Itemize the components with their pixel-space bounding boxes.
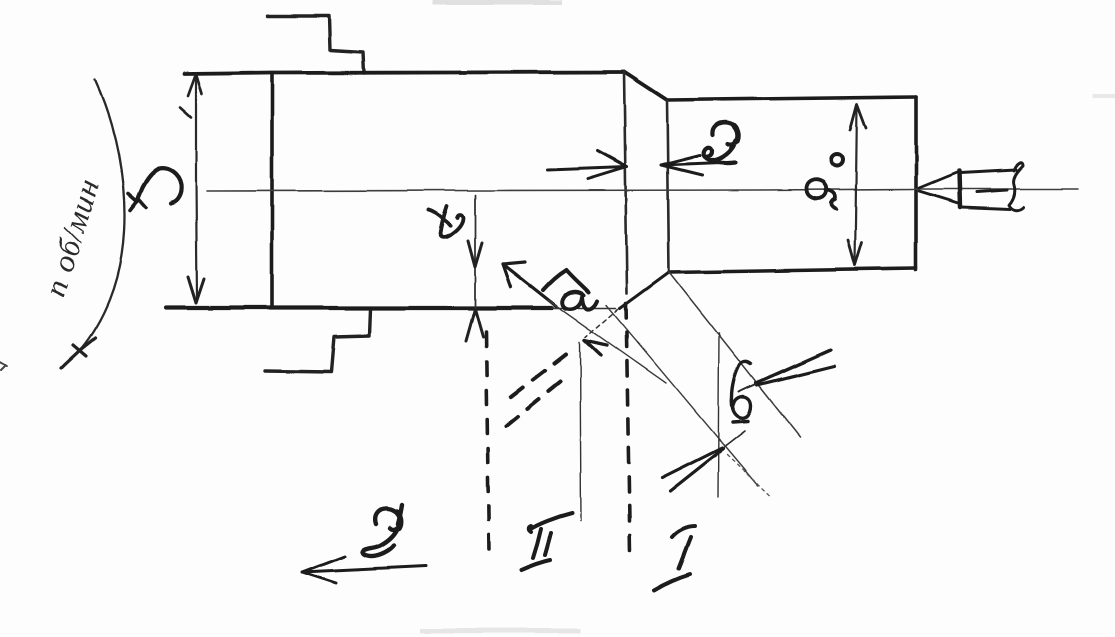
- tailstock inner dash: [977, 190, 1007, 192]
- chuck jaw bottom step: [265, 309, 370, 372]
- tailstock quill face bar: [959, 171, 960, 207]
- left face workpiece: [270, 73, 274, 308]
- dimension d vertical line: [855, 105, 857, 264]
- rotation arc: [80, 80, 124, 350]
- handwritten n ob/min label: [37, 174, 106, 300]
- left arrow: [548, 151, 627, 179]
- leader line for II: [580, 342, 581, 521]
- vertical edge at taper start: [624, 72, 627, 293]
- chuck jaw top step: [268, 16, 364, 73]
- dashed cutting edge position II upper: [505, 354, 566, 401]
- rotation arc arrowhead: [61, 338, 95, 368]
- tailstock quill top: [960, 170, 1016, 173]
- bottom line small cylinder: [669, 268, 916, 272]
- bottom line large cylinder: [166, 306, 552, 310]
- dashed cutting edge position II lower: [502, 382, 560, 429]
- t arrow down: [468, 241, 482, 267]
- t arrow up from below: [466, 309, 483, 341]
- centerline: [207, 189, 1078, 191]
- chamfer extension dotted: [586, 309, 618, 337]
- top line small cylinder: [667, 97, 916, 100]
- label b: [732, 362, 751, 422]
- tailstock center cone bottom: [919, 191, 958, 203]
- chamfer shoulder bottom: [620, 272, 669, 308]
- angle b arrow lower left: [662, 448, 723, 491]
- label S bottom: [362, 505, 402, 556]
- label t: [429, 210, 450, 226]
- feed direction arrow bottom: [302, 556, 426, 583]
- label a: [562, 292, 597, 309]
- dotted tail below b crossing: [727, 455, 770, 496]
- workpiece top line large cylinder: [184, 72, 624, 74]
- tool edge line extended (position I): [606, 305, 758, 486]
- d top arrowhead: [850, 104, 866, 130]
- tailstock quill bottom: [961, 207, 1010, 209]
- chamfer edge arrow (upper-left): [503, 262, 556, 306]
- dimension t leader vertical: [474, 195, 476, 308]
- leader line for I: [718, 333, 719, 497]
- cut surface trace line: [548, 300, 666, 383]
- scan smudge top edge: [432, 0, 562, 5]
- d bottom arrowhead: [848, 240, 862, 265]
- label d curl: [807, 180, 836, 209]
- dimension D top arrowhead: [180, 74, 202, 117]
- taper shoulder top: [624, 72, 667, 100]
- tailstock center cone top: [919, 172, 958, 188]
- tailstock quill end squiggle: [1009, 163, 1024, 210]
- cutting edge diagonal from vertex: [669, 272, 800, 437]
- dashed tool line right: [626, 303, 630, 553]
- scan smudge bottom edge: [420, 628, 580, 633]
- dimension D bottom arrowhead: [188, 277, 204, 303]
- label S top: [704, 123, 739, 163]
- scan smudge right edge: [1092, 94, 1115, 98]
- right arrow: [661, 155, 733, 175]
- shoulder vertical line: [667, 100, 669, 272]
- angle b arrow upper right: [756, 350, 834, 385]
- label I: [654, 526, 695, 590]
- right face small cylinder: [914, 97, 918, 270]
- label d ring: [831, 154, 843, 166]
- position II pointer arrow: [585, 340, 607, 355]
- rotation direction curl arrow: [137, 169, 181, 203]
- angle a caret: [543, 270, 588, 292]
- dimension D vertical line: [196, 76, 197, 300]
- dashed tool line left: [486, 332, 489, 552]
- label II: [521, 513, 572, 570]
- left margin tick: [0, 362, 7, 370]
